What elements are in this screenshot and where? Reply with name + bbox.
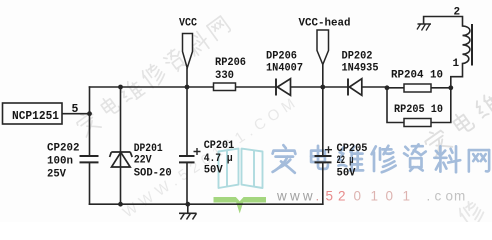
svg-text:c: c xyxy=(435,189,442,204)
bottom rail xyxy=(90,203,323,205)
svg-text:1: 1 xyxy=(453,58,460,70)
svg-text:100n: 100n xyxy=(47,156,73,168)
svg-text:RP205 10: RP205 10 xyxy=(394,104,443,116)
capacitor CP205 (polarized) xyxy=(315,156,332,162)
svg-text:22V: 22V xyxy=(134,155,152,167)
svg-text:25V: 25V xyxy=(47,169,66,181)
NCP1251 pin 5 wire xyxy=(62,113,90,115)
faint diagonal watermark run B: WWW.520101.COM xyxy=(120,92,303,221)
NCP1251 box U1 xyxy=(3,103,63,124)
svg-text:50V: 50V xyxy=(337,168,356,180)
junction: RP204/RP205 left node xyxy=(385,85,390,90)
zener diode DP201 xyxy=(112,152,131,167)
transformer top wire, pin 2 xyxy=(424,17,463,27)
svg-text:NCP1251: NCP1251 xyxy=(12,110,59,123)
svg-text:1N4935: 1N4935 xyxy=(342,63,379,75)
svg-text:CP202: CP202 xyxy=(47,143,80,155)
ground (bottom, under CP201 node) xyxy=(179,204,197,219)
svg-text:0: 0 xyxy=(386,189,394,204)
svg-text:22 µ: 22 µ xyxy=(337,155,354,167)
junction: pin 5 node xyxy=(87,111,92,116)
VCC-head symbol xyxy=(317,30,329,65)
junction: VCC-head node xyxy=(320,85,325,90)
junction: VCC node xyxy=(185,85,190,90)
svg-text:DP201: DP201 xyxy=(134,143,163,155)
svg-text:.: . xyxy=(427,189,431,204)
svg-text:m: m xyxy=(454,189,465,204)
svg-text:VCC-head: VCC-head xyxy=(299,18,351,30)
svg-text:CP201: CP201 xyxy=(204,140,235,152)
svg-text:RP206: RP206 xyxy=(215,57,246,69)
svg-text:o: o xyxy=(446,189,454,204)
svg-text:1: 1 xyxy=(371,189,379,204)
diode DP206 xyxy=(275,79,277,96)
diode DP202 xyxy=(347,79,349,96)
svg-text:VCC: VCC xyxy=(179,18,197,30)
svg-text:330: 330 xyxy=(215,70,234,82)
VCC symbol xyxy=(183,34,193,69)
faint diagonal watermark run C xyxy=(422,90,492,158)
capacitor CP202 xyxy=(80,156,99,162)
svg-text:1N4007: 1N4007 xyxy=(266,63,303,75)
faint diagonal watermark run E (bottom-right corner fragment) xyxy=(457,198,487,229)
svg-text:50V: 50V xyxy=(204,165,223,177)
svg-text:5: 5 xyxy=(72,103,79,116)
RP205 parallel path xyxy=(387,88,451,123)
svg-text:CP205: CP205 xyxy=(337,143,368,155)
VCC-head branch xyxy=(322,65,324,204)
resistor RP204 xyxy=(404,84,431,92)
DP201 branch xyxy=(120,87,122,204)
site logo: green base swoosh xyxy=(214,197,267,214)
resistor RP205 xyxy=(404,119,431,127)
junction: DP201 top on VCC rail xyxy=(118,85,123,90)
svg-text:1: 1 xyxy=(403,189,411,204)
svg-text:www: www xyxy=(276,189,316,204)
ground (top, near transformer pin 2) xyxy=(417,24,431,31)
VCC branch xyxy=(186,69,188,205)
junction: DP201 bottom on ground rail xyxy=(118,202,123,207)
svg-text:RP204 10: RP204 10 xyxy=(391,70,443,82)
svg-text:DP206: DP206 xyxy=(266,51,297,63)
transformer winding T1 xyxy=(463,24,473,66)
top rail xyxy=(90,86,451,89)
svg-text:SOD-20: SOD-20 xyxy=(134,168,172,180)
site logo: open book xyxy=(219,149,263,188)
svg-text:.: . xyxy=(316,189,320,204)
main blue watermark 家电维修资料网 xyxy=(273,144,490,172)
svg-text:DP202: DP202 xyxy=(342,51,373,63)
faint diagonal watermark run A: 家电维修资料网 xyxy=(74,14,232,137)
svg-text:4.7 µ: 4.7 µ xyxy=(204,153,233,165)
svg-text:0: 0 xyxy=(354,189,362,204)
junction: CP201/ground node xyxy=(185,202,190,207)
wire to transformer pin 1 xyxy=(451,64,463,88)
svg-text:2: 2 xyxy=(454,7,461,19)
svg-text:2: 2 xyxy=(338,189,346,204)
svg-text:5: 5 xyxy=(326,189,334,204)
resistor RP206 xyxy=(214,83,236,91)
www.520101.com line xyxy=(276,189,465,204)
capacitor CP201 (polarized) xyxy=(179,156,195,162)
left vertical line A xyxy=(89,87,91,204)
junction: RP204/RP205 right node xyxy=(448,85,453,90)
